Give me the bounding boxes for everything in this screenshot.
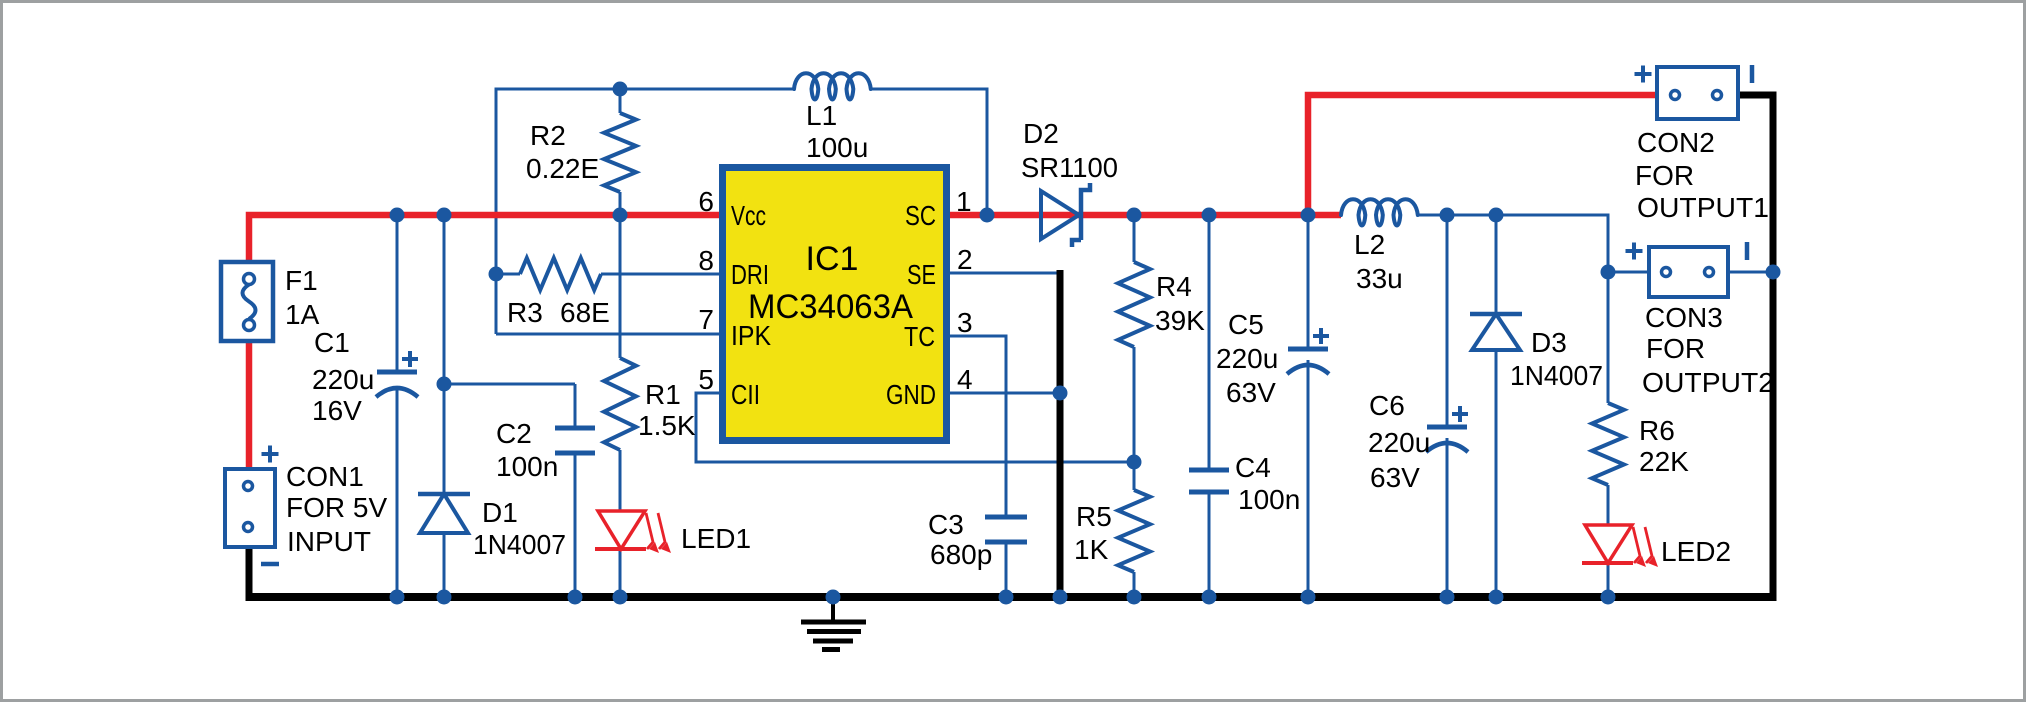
svg-text:C1: C1 <box>314 327 350 358</box>
svg-text:R6: R6 <box>1639 415 1675 446</box>
svg-text:1K: 1K <box>1074 534 1109 565</box>
svg-text:IC1: IC1 <box>806 240 859 278</box>
svg-text:0.22E: 0.22E <box>526 153 599 184</box>
svg-text:OUTPUT1: OUTPUT1 <box>1637 192 1769 223</box>
svg-text:SC: SC <box>905 200 936 231</box>
svg-text:R5: R5 <box>1076 501 1112 532</box>
svg-text:CON1: CON1 <box>286 461 364 492</box>
svg-text:INPUT: INPUT <box>287 526 371 557</box>
svg-text:680p: 680p <box>930 539 992 570</box>
svg-text:L2: L2 <box>1354 229 1385 260</box>
svg-text:D3: D3 <box>1531 327 1567 358</box>
svg-text:FOR: FOR <box>1635 160 1694 191</box>
svg-text:68E: 68E <box>560 297 610 328</box>
svg-text:100n: 100n <box>1238 484 1300 515</box>
svg-text:C5: C5 <box>1228 309 1264 340</box>
svg-text:GND: GND <box>886 379 936 410</box>
svg-text:39K: 39K <box>1155 305 1205 336</box>
svg-text:33u: 33u <box>1356 263 1403 294</box>
svg-text:D2: D2 <box>1023 118 1059 149</box>
svg-text:1N4007: 1N4007 <box>473 529 566 560</box>
svg-text:22K: 22K <box>1639 446 1689 477</box>
svg-text:220u: 220u <box>312 364 374 395</box>
svg-text:LED2: LED2 <box>1661 536 1731 567</box>
svg-text:CON3: CON3 <box>1645 302 1723 333</box>
svg-text:F1: F1 <box>285 265 318 296</box>
svg-text:5: 5 <box>698 364 714 395</box>
svg-text:C2: C2 <box>496 418 532 449</box>
svg-text:4: 4 <box>957 364 973 395</box>
svg-text:C6: C6 <box>1369 390 1405 421</box>
svg-text:100n: 100n <box>496 451 558 482</box>
svg-text:7: 7 <box>698 304 714 335</box>
svg-text:C4: C4 <box>1235 452 1271 483</box>
svg-text:FOR 5V: FOR 5V <box>286 492 387 523</box>
svg-text:R1: R1 <box>645 379 681 410</box>
svg-text:OUTPUT2: OUTPUT2 <box>1642 367 1774 398</box>
svg-text:R3: R3 <box>507 297 543 328</box>
svg-text:220u: 220u <box>1368 427 1430 458</box>
svg-text:C3: C3 <box>928 509 964 540</box>
svg-text:1A: 1A <box>285 299 320 330</box>
svg-text:6: 6 <box>698 186 714 217</box>
svg-text:R4: R4 <box>1156 271 1192 302</box>
svg-text:63V: 63V <box>1370 462 1420 493</box>
svg-text:100u: 100u <box>806 132 868 163</box>
svg-text:MC34063A: MC34063A <box>748 288 913 326</box>
svg-text:LED1: LED1 <box>681 523 751 554</box>
svg-text:63V: 63V <box>1226 377 1276 408</box>
svg-text:SR1100: SR1100 <box>1021 152 1118 183</box>
svg-text:220u: 220u <box>1216 343 1278 374</box>
svg-text:Vcc: Vcc <box>731 200 766 231</box>
svg-text:CII: CII <box>731 379 760 410</box>
svg-text:DRI: DRI <box>731 259 769 290</box>
svg-text:2: 2 <box>957 244 973 275</box>
svg-text:SE: SE <box>907 259 936 290</box>
svg-text:16V: 16V <box>312 395 362 426</box>
svg-text:1.5K: 1.5K <box>638 410 696 441</box>
svg-text:3: 3 <box>957 307 973 338</box>
svg-text:1N4007: 1N4007 <box>1510 360 1603 391</box>
svg-text:FOR: FOR <box>1646 333 1705 364</box>
svg-text:L1: L1 <box>806 100 837 131</box>
svg-text:8: 8 <box>698 245 714 276</box>
svg-text:D1: D1 <box>482 497 518 528</box>
svg-text:1: 1 <box>956 186 972 217</box>
svg-text:R2: R2 <box>530 120 566 151</box>
svg-text:CON2: CON2 <box>1637 127 1715 158</box>
